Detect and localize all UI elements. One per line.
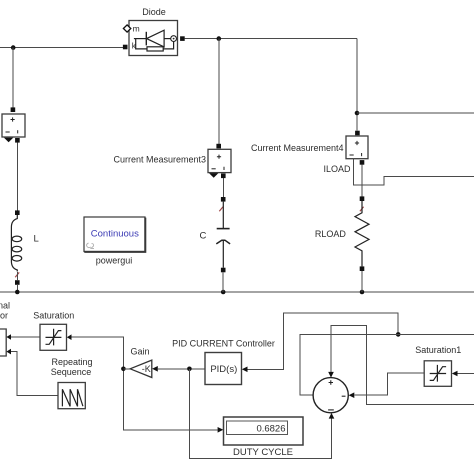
wire CM4 to RLOAD xyxy=(361,165,363,197)
svg-text:powergui: powergui xyxy=(96,255,133,265)
port L bottom xyxy=(15,280,20,285)
arrow into relop input 2 xyxy=(6,349,11,355)
powergui block xyxy=(84,217,145,252)
bus bottom rail xyxy=(0,291,474,293)
svg-text:RLOAD: RLOAD xyxy=(315,229,347,239)
node J5 gain output xyxy=(121,367,126,372)
arrow into sum bottom xyxy=(329,413,335,419)
PID block xyxy=(205,353,242,385)
port L top xyxy=(15,210,20,215)
node J1 xyxy=(11,45,16,50)
node bus-C xyxy=(221,290,226,295)
wire corner down to CM4 xyxy=(356,39,358,131)
diode block D1 xyxy=(129,21,178,56)
arrow into sum top xyxy=(328,372,334,378)
svg-text:C: C xyxy=(200,230,207,241)
red tick C xyxy=(219,207,223,211)
wire saturation1 to sum right input xyxy=(354,373,424,395)
node J4 xyxy=(355,111,360,116)
node J6 xyxy=(187,367,192,372)
arrow into saturation1 xyxy=(452,371,458,377)
port diode right xyxy=(180,36,185,41)
wire J1 down to left measurement xyxy=(12,48,14,108)
svg-text:Saturation: Saturation xyxy=(33,311,74,321)
port CM4 bottom xyxy=(360,160,365,165)
sum plus sign xyxy=(329,380,333,384)
svg-text:Saturation1: Saturation1 xyxy=(415,345,461,355)
powergui corner glyph xyxy=(87,243,95,249)
arrow into saturation xyxy=(67,334,72,340)
svg-text:Sequence: Sequence xyxy=(51,367,92,377)
diode internal output circle xyxy=(171,36,177,42)
wire sum output to right edge xyxy=(300,334,474,395)
wire ILOAD signal xyxy=(353,159,474,185)
svg-text:nal: nal xyxy=(0,300,10,310)
svg-text:PID CURRENT Controller: PID CURRENT Controller xyxy=(172,339,275,349)
svg-text:Repeating: Repeating xyxy=(51,357,92,367)
port diode left xyxy=(123,45,128,50)
wire J3 down to CM3 xyxy=(218,39,220,144)
red tick RLOAD xyxy=(360,207,364,211)
arrow into sum right xyxy=(349,392,355,398)
wire L lead to port xyxy=(16,272,18,280)
svg-text:or: or xyxy=(0,310,8,320)
wire top rail left xyxy=(0,47,123,49)
node bus-RLOAD xyxy=(360,290,365,295)
wire J6 down to sum bottom input xyxy=(189,369,331,459)
svg-text:Current Measurement3: Current Measurement3 xyxy=(113,155,206,165)
current measurement CM3 xyxy=(208,149,231,172)
wire left-CM to L xyxy=(16,143,18,211)
wire feedback to PID input xyxy=(248,313,399,369)
port CM3 bottom xyxy=(221,174,226,179)
capacitor C xyxy=(222,202,224,228)
red tick L xyxy=(15,272,19,277)
arrow into display xyxy=(218,427,224,433)
wire C to bus xyxy=(222,272,224,292)
inductor L xyxy=(11,215,17,272)
display block DUTY CYCLE xyxy=(224,417,304,445)
port left-CM top xyxy=(11,107,16,112)
svg-text:0.6826: 0.6826 xyxy=(256,424,285,435)
svg-text:DUTY CYCLE: DUTY CYCLE xyxy=(233,447,293,458)
sum minus right xyxy=(342,395,346,397)
arrow into relop input 1 xyxy=(6,334,11,340)
wire CM3 to C xyxy=(222,178,224,197)
output arrow CM3 xyxy=(209,173,218,178)
wire gain output stub xyxy=(123,368,130,370)
svg-text:m: m xyxy=(133,24,140,34)
port RLOAD top xyxy=(360,196,365,201)
arrow into gain xyxy=(152,366,158,372)
svg-text:Diode: Diode xyxy=(142,7,166,17)
resistor RLOAD xyxy=(355,201,369,266)
sum block xyxy=(313,378,348,413)
node J7 xyxy=(396,332,401,337)
port left-CM bottom xyxy=(15,138,20,143)
wire diode to corner xyxy=(185,38,357,40)
wire RLOAD to bus xyxy=(361,271,363,292)
sum minus bottom xyxy=(328,409,334,411)
svg-text:PID(s): PID(s) xyxy=(210,364,237,375)
arrow into PID xyxy=(242,367,248,373)
wire gain junction to saturation and down to display xyxy=(72,337,218,430)
output arrow left-CM xyxy=(4,138,13,143)
svg-text:Continuous: Continuous xyxy=(91,228,139,239)
port RLOAD bottom xyxy=(360,266,365,271)
saturation1 block xyxy=(424,361,451,387)
wire right edge to saturation1 xyxy=(458,373,474,375)
saturation block xyxy=(40,324,67,350)
wire sum top input from right edge xyxy=(331,325,474,404)
port CM4 top xyxy=(355,131,360,136)
port C top xyxy=(221,197,226,202)
wire PID to gain xyxy=(158,368,205,370)
node bus-L xyxy=(15,290,20,295)
current measurement block (left, cropped) xyxy=(2,114,25,137)
repeating sequence block xyxy=(58,383,85,409)
current measurement CM4 xyxy=(346,136,368,159)
port C bottom xyxy=(221,268,226,273)
wire J4 to right edge xyxy=(357,112,474,114)
gain triangle xyxy=(130,360,152,377)
wire L to bus xyxy=(16,285,18,292)
wire relop input2 to repeating sequence xyxy=(11,352,58,396)
relational operator block (cropped) xyxy=(0,329,6,356)
svg-text:Gain: Gain xyxy=(130,347,149,357)
node J3 xyxy=(217,36,222,41)
svg-text:L: L xyxy=(34,233,39,244)
svg-text:-K: -K xyxy=(142,364,151,374)
wire saturation to relop xyxy=(11,336,40,338)
diode symbol xyxy=(134,38,146,40)
svg-text:ILOAD: ILOAD xyxy=(323,164,351,174)
diode m port diamond xyxy=(123,25,130,32)
diode snubber xyxy=(136,39,147,49)
port CM3 top xyxy=(216,144,221,149)
svg-text:Current Measurement4: Current Measurement4 xyxy=(251,143,344,153)
